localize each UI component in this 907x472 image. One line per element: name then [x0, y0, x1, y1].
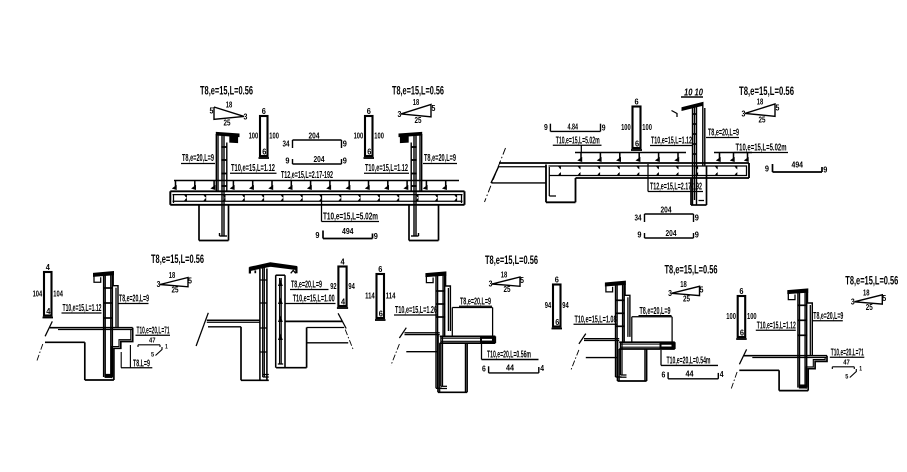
svg-text:5: 5 — [845, 374, 848, 381]
svg-text:9: 9 — [544, 123, 548, 132]
svg-text:5: 5 — [776, 104, 780, 113]
svg-text:94: 94 — [348, 281, 355, 291]
svg-text:18: 18 — [863, 288, 870, 297]
svg-text:25: 25 — [172, 286, 179, 295]
svg-text:T12,e=15,L=2.17-192: T12,e=15,L=2.17-192 — [281, 170, 333, 181]
svg-text:100: 100 — [747, 311, 757, 321]
svg-text:3: 3 — [244, 112, 248, 121]
svg-text:25: 25 — [504, 285, 511, 294]
svg-text:104: 104 — [33, 288, 43, 298]
svg-text:T8,e=20,L=9: T8,e=20,L=9 — [291, 280, 322, 291]
svg-text:18: 18 — [413, 98, 420, 107]
svg-text:T8,e=15,L=0.56: T8,e=15,L=0.56 — [200, 84, 253, 98]
svg-text:6: 6 — [262, 147, 266, 157]
svg-text:4.84: 4.84 — [568, 121, 579, 131]
svg-text:6: 6 — [739, 286, 743, 296]
svg-text:5: 5 — [700, 285, 704, 294]
svg-text:25: 25 — [683, 294, 690, 303]
svg-text:T8,e=20,L=9: T8,e=20,L=9 — [424, 153, 456, 164]
svg-text:34: 34 — [283, 139, 290, 149]
svg-text:4: 4 — [720, 370, 724, 379]
svg-text:T8,e=20,L=9: T8,e=20,L=9 — [119, 294, 149, 305]
svg-text:9: 9 — [602, 124, 606, 133]
svg-text:114: 114 — [365, 291, 375, 301]
svg-text:3: 3 — [851, 297, 855, 306]
svg-text:494: 494 — [792, 160, 804, 170]
svg-text:94: 94 — [545, 300, 552, 310]
svg-text:T8,e=15,L=0.56: T8,e=15,L=0.56 — [665, 262, 718, 276]
svg-text:6: 6 — [367, 147, 371, 157]
svg-text:6: 6 — [740, 328, 744, 338]
svg-text:T8,e=15,L=0.56: T8,e=15,L=0.56 — [739, 84, 794, 98]
svg-text:9: 9 — [285, 156, 289, 166]
svg-text:3: 3 — [489, 280, 493, 289]
svg-text:5: 5 — [432, 104, 436, 113]
svg-text:T10,e=15,L=5.02m: T10,e=15,L=5.02m — [323, 212, 378, 223]
svg-text:T10,e=15,L=1.00: T10,e=15,L=1.00 — [293, 294, 335, 305]
svg-text:18: 18 — [169, 271, 176, 280]
svg-text:5: 5 — [520, 276, 524, 285]
svg-text:47: 47 — [149, 336, 156, 345]
svg-text:100: 100 — [269, 131, 279, 141]
svg-text:92: 92 — [330, 281, 337, 291]
svg-text:114: 114 — [386, 291, 396, 301]
svg-text:4: 4 — [340, 257, 344, 267]
svg-text:6: 6 — [482, 365, 486, 374]
svg-text:T10,e=15,L=1.08: T10,e=15,L=1.08 — [575, 314, 617, 325]
svg-text:9: 9 — [343, 139, 347, 149]
svg-text:T10,e=15,L=1.12: T10,e=15,L=1.12 — [231, 163, 275, 174]
svg-text:3: 3 — [742, 109, 746, 118]
svg-text:6: 6 — [262, 106, 266, 116]
svg-text:9: 9 — [695, 213, 699, 223]
svg-text:47: 47 — [843, 358, 850, 367]
svg-text:T10,e=15,L=1.12: T10,e=15,L=1.12 — [757, 320, 796, 331]
svg-text:6: 6 — [662, 370, 666, 379]
svg-text:T10,e=15,L=1.26: T10,e=15,L=1.26 — [395, 305, 437, 316]
svg-text:9: 9 — [343, 156, 347, 166]
svg-text:T10,e=15,L=1.12: T10,e=15,L=1.12 — [63, 303, 102, 314]
svg-text:100: 100 — [374, 131, 384, 141]
svg-text:204: 204 — [309, 131, 320, 141]
svg-text:9: 9 — [315, 230, 319, 240]
svg-text:T8,e=15,L=0.56: T8,e=15,L=0.56 — [151, 252, 204, 266]
svg-text:9: 9 — [695, 230, 699, 240]
svg-text:3: 3 — [157, 280, 161, 289]
svg-text:18: 18 — [757, 98, 764, 107]
svg-text:5: 5 — [151, 352, 154, 359]
svg-text:T10,e=15,L=1.12: T10,e=15,L=1.12 — [651, 136, 692, 147]
svg-text:T8,e=20,L=9: T8,e=20,L=9 — [813, 311, 843, 322]
svg-text:94: 94 — [562, 300, 569, 310]
svg-text:6: 6 — [635, 139, 639, 149]
svg-text:9: 9 — [374, 231, 378, 241]
svg-text:18: 18 — [680, 280, 687, 289]
svg-text:T8,e=20,L=9: T8,e=20,L=9 — [182, 153, 214, 164]
svg-text:T8,e=15,L=0.56: T8,e=15,L=0.56 — [485, 253, 538, 267]
svg-text:204: 204 — [666, 228, 677, 238]
svg-text:5: 5 — [210, 107, 214, 116]
svg-text:9: 9 — [823, 165, 827, 175]
svg-text:44: 44 — [506, 363, 514, 373]
svg-text:4: 4 — [46, 262, 50, 272]
svg-text:9: 9 — [637, 230, 641, 240]
svg-text:25: 25 — [224, 118, 231, 127]
svg-text:25: 25 — [866, 303, 873, 312]
svg-text:T8,e=15,L=0.56: T8,e=15,L=0.56 — [392, 84, 444, 98]
svg-text:6: 6 — [378, 264, 382, 274]
svg-text:6: 6 — [555, 275, 559, 285]
svg-text:6: 6 — [634, 97, 638, 107]
svg-text:100: 100 — [621, 122, 631, 132]
svg-text:3: 3 — [398, 110, 402, 119]
svg-text:100: 100 — [354, 131, 364, 141]
svg-text:4: 4 — [341, 297, 345, 307]
svg-text:100: 100 — [726, 311, 736, 321]
svg-text:18: 18 — [226, 101, 233, 110]
svg-text:9: 9 — [765, 164, 769, 174]
svg-text:204: 204 — [661, 205, 672, 215]
svg-text:T12,e=15,L=2.17-192: T12,e=15,L=2.17-192 — [650, 182, 702, 193]
svg-text:4: 4 — [540, 364, 544, 373]
svg-text:100: 100 — [249, 131, 259, 141]
svg-text:494: 494 — [342, 226, 354, 236]
svg-text:25: 25 — [415, 116, 422, 125]
svg-text:18: 18 — [501, 271, 508, 280]
svg-text:6: 6 — [555, 317, 559, 327]
svg-text:3: 3 — [668, 289, 672, 298]
svg-text:6: 6 — [367, 106, 371, 116]
svg-text:204: 204 — [314, 154, 325, 164]
svg-text:44: 44 — [686, 368, 694, 378]
svg-text:104: 104 — [53, 288, 63, 298]
svg-text:5: 5 — [188, 277, 192, 286]
svg-text:5: 5 — [882, 294, 886, 303]
svg-text:100: 100 — [642, 122, 652, 132]
svg-text:4: 4 — [46, 306, 50, 316]
svg-text:25: 25 — [759, 115, 766, 124]
svg-text:6: 6 — [379, 309, 383, 319]
svg-text:T8,e=20,L=9: T8,e=20,L=9 — [708, 128, 739, 139]
svg-text:T8,e=15,L=0.56: T8,e=15,L=0.56 — [845, 273, 898, 287]
svg-text:34: 34 — [635, 213, 642, 223]
svg-text:T10,e=15,L=1.12: T10,e=15,L=1.12 — [365, 163, 408, 174]
